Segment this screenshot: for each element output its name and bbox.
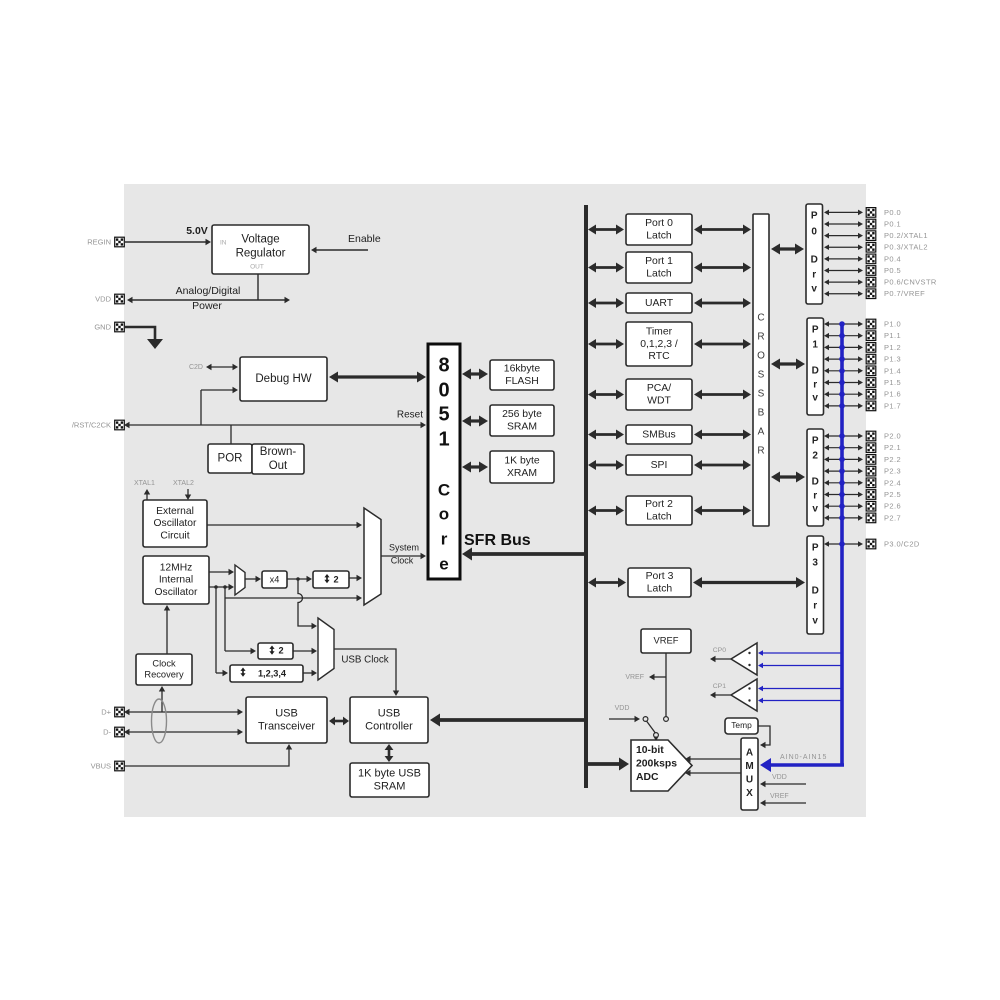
svg-text:12MHz: 12MHz xyxy=(160,563,193,574)
block divide-by-1234 xyxy=(230,665,303,682)
svg-text:POR: POR xyxy=(218,453,243,465)
pin P0.5 xyxy=(824,266,901,276)
svg-text:x4: x4 xyxy=(270,574,280,584)
pin P2.6 xyxy=(824,501,901,511)
wire Timer 0123 RTC to crossbar xyxy=(701,343,744,346)
pin P2.4 xyxy=(824,478,901,488)
comparator CP0 xyxy=(710,643,757,675)
block Port 2 Latch xyxy=(626,496,692,525)
svg-text:16kbyte: 16kbyte xyxy=(504,364,541,375)
bus analog blue vertical xyxy=(840,324,844,765)
block POR xyxy=(208,444,252,473)
pin P1.4 xyxy=(824,366,901,376)
svg-text:Enable: Enable xyxy=(348,233,381,245)
svg-text:VREF: VREF xyxy=(653,634,678,645)
block 1K byte USB SRAM xyxy=(350,763,429,797)
svg-text:2: 2 xyxy=(812,451,818,462)
wire Port 1 Latch to crossbar xyxy=(701,266,744,269)
wire SFR bus to SMBus xyxy=(595,433,617,436)
block USB Transceiver xyxy=(246,697,327,743)
svg-text:5.0V: 5.0V xyxy=(186,225,208,237)
svg-text:VDD: VDD xyxy=(615,705,630,712)
switch vref/vdd select xyxy=(609,705,668,741)
svg-text:P0.1: P0.1 xyxy=(884,220,901,229)
svg-text:2: 2 xyxy=(333,574,338,584)
pin P2.5 xyxy=(824,490,901,500)
wire USB clock to controller xyxy=(334,649,399,696)
svg-text:P2.7: P2.7 xyxy=(884,513,901,522)
svg-text:P2.0: P2.0 xyxy=(884,431,901,440)
svg-text:Recovery: Recovery xyxy=(144,669,184,679)
svg-text:Latch: Latch xyxy=(647,583,673,594)
svg-text:1K byte: 1K byte xyxy=(504,456,539,467)
wire Port 2 Latch to crossbar xyxy=(701,509,744,512)
svg-text:Oscillator: Oscillator xyxy=(155,587,198,598)
wire osc to div1234 xyxy=(216,587,228,676)
svg-text:VREF: VREF xyxy=(770,793,789,800)
pin P1.6 xyxy=(824,389,901,399)
wire reset branch to Debug HW xyxy=(201,387,238,425)
pin P1.3 xyxy=(824,354,901,364)
pin VBUS xyxy=(91,761,125,771)
wire SFR bus to USB controller xyxy=(439,718,586,722)
svg-text:O: O xyxy=(757,351,765,362)
svg-text:Voltage: Voltage xyxy=(241,234,279,246)
block Debug HW xyxy=(240,357,327,401)
pin GND xyxy=(94,322,124,332)
pin /RST/C2CK xyxy=(72,420,124,430)
svg-text:Circuit: Circuit xyxy=(160,530,189,541)
mux internal osc xyxy=(235,565,245,595)
svg-text:P2.3: P2.3 xyxy=(884,467,901,476)
wire internal osc out A xyxy=(209,571,230,573)
svg-text:256 byte: 256 byte xyxy=(502,409,542,420)
svg-text:Reset: Reset xyxy=(397,410,423,421)
svg-text:P1.0: P1.0 xyxy=(884,319,901,328)
wire core to sram xyxy=(470,419,480,422)
svg-text:/RST/C2CK: /RST/C2CK xyxy=(72,420,111,429)
svg-text:Internal: Internal xyxy=(159,575,193,586)
block 8051 Core xyxy=(428,344,460,579)
svg-text:2: 2 xyxy=(278,645,283,655)
pin D+ xyxy=(101,707,124,717)
wire SFR bus to Port 3 Latch xyxy=(595,581,619,584)
svg-text:10-bit: 10-bit xyxy=(636,745,664,756)
wire Enable input xyxy=(311,233,381,253)
svg-text:XRAM: XRAM xyxy=(507,468,537,479)
block CROSSBAR xyxy=(753,214,769,526)
svg-text:D: D xyxy=(811,255,818,266)
svg-text:A: A xyxy=(758,427,765,438)
wire core to flash xyxy=(470,372,480,375)
wire D+ line xyxy=(129,711,239,713)
svg-text:P2.1: P2.1 xyxy=(884,443,901,452)
svg-text:FLASH: FLASH xyxy=(505,376,539,387)
wire osc direct to system mux xyxy=(225,587,362,601)
block SMBus xyxy=(626,425,692,444)
wire AMUX VREF input xyxy=(760,793,806,806)
pin P1.0 xyxy=(824,319,901,329)
svg-text:P2.6: P2.6 xyxy=(884,502,901,511)
block External Oscillator Circuit xyxy=(143,500,207,547)
svg-text:VDD: VDD xyxy=(772,774,787,781)
svg-text:1: 1 xyxy=(812,340,818,351)
wire branch to USB mux with hop xyxy=(298,579,317,629)
block Temp sensor xyxy=(725,718,758,734)
pin P1.1 xyxy=(824,331,901,341)
svg-text:r: r xyxy=(441,529,448,548)
svg-text:D: D xyxy=(812,477,819,488)
svg-text:Timer: Timer xyxy=(646,326,673,337)
wire CP0 inputs blue xyxy=(758,650,842,668)
svg-text:P0.7/VREF: P0.7/VREF xyxy=(884,289,925,298)
svg-text:SPI: SPI xyxy=(651,460,668,471)
svg-text:Temp: Temp xyxy=(731,720,752,730)
wire SFR bus to UART xyxy=(595,302,617,305)
wire SFR bus to Port 2 Latch xyxy=(595,509,617,512)
svg-text:P1.1: P1.1 xyxy=(884,331,901,340)
svg-text:USB: USB xyxy=(378,707,401,719)
svg-text:SRAM: SRAM xyxy=(507,421,537,432)
wire Analog/Digital Power xyxy=(127,285,290,312)
block P3 Drv xyxy=(807,536,824,634)
wire div1234 to usb mux xyxy=(303,672,313,674)
svg-text:D: D xyxy=(812,586,819,597)
wire temp to AMUX xyxy=(758,726,770,748)
wire div2 to system mux xyxy=(349,577,358,579)
svg-text:D: D xyxy=(812,366,819,377)
svg-text:0: 0 xyxy=(438,379,449,401)
wire UART to crossbar xyxy=(701,302,744,305)
svg-text:C: C xyxy=(757,313,764,324)
wire AMUX VDD input xyxy=(760,774,806,787)
svg-text:M: M xyxy=(745,761,753,772)
wire osc to div2 usb xyxy=(225,598,256,654)
block AMUX xyxy=(741,738,758,810)
svg-text:P1.5: P1.5 xyxy=(884,378,901,387)
wire SPI to crossbar xyxy=(701,464,744,467)
svg-text:Latch: Latch xyxy=(646,268,672,279)
svg-text:P2.4: P2.4 xyxy=(884,478,901,487)
wire SFR bus to Timer 0123 RTC xyxy=(595,343,617,346)
svg-text:Power: Power xyxy=(192,300,222,312)
block Clock Recovery xyxy=(136,654,192,685)
svg-text:v: v xyxy=(812,504,818,515)
svg-text:8: 8 xyxy=(438,354,449,376)
svg-text:P1.2: P1.2 xyxy=(884,343,901,352)
wire Reset xyxy=(124,410,426,429)
block divide-by-2 system xyxy=(313,571,349,588)
wire core to xram xyxy=(470,465,480,468)
pin P2.7 xyxy=(824,513,901,523)
svg-text:Port 3: Port 3 xyxy=(646,571,674,582)
svg-text:WDT: WDT xyxy=(647,395,671,406)
svg-text:Analog/Digital: Analog/Digital xyxy=(176,285,241,297)
svg-text:P1.6: P1.6 xyxy=(884,390,901,399)
svg-text:P0.6/CNVSTR: P0.6/CNVSTR xyxy=(884,278,937,287)
wire mux to x4 xyxy=(245,578,257,580)
pin P0.0 xyxy=(824,208,901,218)
svg-text:SFR Bus: SFR Bus xyxy=(464,532,531,549)
pin REGIN xyxy=(87,237,124,247)
svg-text:P0.4: P0.4 xyxy=(884,254,901,263)
block USB Controller xyxy=(350,697,428,743)
svg-text:SMBus: SMBus xyxy=(642,429,676,440)
wire D- line xyxy=(129,731,239,733)
block P0 Drv xyxy=(806,204,823,304)
svg-text:P0.3/XTAL2: P0.3/XTAL2 xyxy=(884,243,928,252)
pin P2.3 xyxy=(824,466,901,476)
svg-text:A: A xyxy=(746,748,753,759)
svg-text:P1.4: P1.4 xyxy=(884,366,901,375)
mux system clock xyxy=(364,508,381,605)
svg-text:r: r xyxy=(813,601,817,612)
wire SFR bus to PCA/WDT xyxy=(595,393,617,396)
svg-text:Out: Out xyxy=(269,460,288,472)
svg-text:r: r xyxy=(813,380,817,391)
block UART xyxy=(626,293,692,313)
svg-text:VREF: VREF xyxy=(625,674,644,681)
wire system clock to core xyxy=(381,542,426,565)
pin P3.0/C2D xyxy=(824,539,920,549)
svg-text:RTC: RTC xyxy=(648,351,670,362)
wire SFR bus to Port 0 Latch xyxy=(595,228,617,231)
svg-text:1,2,3,4: 1,2,3,4 xyxy=(258,668,287,678)
svg-text:P0.5: P0.5 xyxy=(884,266,901,275)
wire ext osc to system mux xyxy=(207,524,358,526)
wire REGIN to regulator xyxy=(124,225,211,245)
svg-text:D+: D+ xyxy=(101,707,111,716)
diagram gray background xyxy=(124,184,866,817)
svg-text:C: C xyxy=(438,480,450,499)
block Port 1 Latch xyxy=(626,252,692,283)
block 12MHz Internal Oscillator xyxy=(143,556,209,604)
svg-text:D-: D- xyxy=(103,727,111,736)
svg-text:5: 5 xyxy=(438,403,449,425)
block Voltage Regulator xyxy=(212,225,309,274)
svg-text:S: S xyxy=(758,389,765,400)
block SPI xyxy=(626,455,692,475)
svg-text:P0.2/XTAL1: P0.2/XTAL1 xyxy=(884,231,928,240)
wire Port 0 Latch to crossbar xyxy=(701,228,744,231)
svg-text:Transceiver: Transceiver xyxy=(258,720,315,732)
svg-text:P: P xyxy=(812,543,819,554)
svg-text:o: o xyxy=(439,504,449,523)
label XTAL1 XTAL2 xyxy=(134,480,194,487)
wire Port 3 Latch to P3 Drv xyxy=(701,581,797,584)
wire div2usb to usb mux xyxy=(293,650,313,652)
svg-text:Controller: Controller xyxy=(365,720,413,732)
pin VDD xyxy=(95,294,124,304)
block Brown-Out xyxy=(252,444,304,474)
svg-text:CP1: CP1 xyxy=(713,683,726,690)
wire VBUS to transceiver xyxy=(124,744,292,766)
svg-text:IN: IN xyxy=(220,240,227,247)
svg-text:r: r xyxy=(813,491,817,502)
pin P0.7/VREF xyxy=(824,289,925,299)
wire XTAL2 arrow xyxy=(187,489,189,496)
svg-text:Port 1: Port 1 xyxy=(645,256,673,267)
pin P2.2 xyxy=(824,455,901,465)
wire vref output pin xyxy=(625,674,666,681)
ground symbol xyxy=(124,327,163,349)
wire AMUX to ADC a xyxy=(690,758,742,760)
pin P0.3/XTAL2 xyxy=(824,242,928,252)
block PCA/WDT xyxy=(626,379,692,410)
svg-text:GND: GND xyxy=(94,322,111,331)
svg-text:v: v xyxy=(812,616,818,627)
pin P1.2 xyxy=(824,343,901,353)
wire internal osc out B xyxy=(209,584,234,590)
svg-text:X: X xyxy=(746,788,753,799)
svg-text:USB: USB xyxy=(275,707,298,719)
svg-text:Oscillator: Oscillator xyxy=(154,518,197,529)
wire x4 to div2 xyxy=(287,576,312,582)
svg-text:Latch: Latch xyxy=(646,511,672,522)
svg-text:Clock: Clock xyxy=(152,658,176,668)
svg-text:S: S xyxy=(758,370,765,381)
mux usb clock xyxy=(318,618,334,680)
svg-text:P2.5: P2.5 xyxy=(884,490,901,499)
svg-text:1K byte USB: 1K byte USB xyxy=(358,767,421,779)
block 1K byte XRAM xyxy=(490,451,554,483)
svg-text:Port 0: Port 0 xyxy=(645,218,673,229)
wire SMBus to crossbar xyxy=(701,433,744,436)
svg-text:P1.7: P1.7 xyxy=(884,401,901,410)
bus AIN0-AIN15 to AMUX xyxy=(760,754,844,772)
svg-text:R: R xyxy=(757,332,764,343)
svg-text:P: P xyxy=(811,211,818,222)
svg-text:External: External xyxy=(156,506,194,517)
svg-text:Brown-: Brown- xyxy=(260,446,297,458)
block P1 Drv xyxy=(807,318,824,415)
svg-text:CP0: CP0 xyxy=(713,647,726,654)
svg-text:C2D: C2D xyxy=(189,364,203,371)
svg-text:P2.2: P2.2 xyxy=(884,455,901,464)
wire AMUX to ADC b xyxy=(690,772,742,774)
block Port 0 Latch xyxy=(626,214,692,245)
svg-text:PCA/: PCA/ xyxy=(647,383,671,394)
svg-text:Latch: Latch xyxy=(646,230,672,241)
svg-text:r: r xyxy=(812,270,816,281)
svg-text:P1.3: P1.3 xyxy=(884,355,901,364)
wire transceiver to controller xyxy=(334,720,344,723)
pin P0.1 xyxy=(824,219,901,229)
svg-text:0: 0 xyxy=(811,227,817,238)
block Port 3 Latch xyxy=(628,568,691,597)
pin P0.6/CNVSTR xyxy=(824,277,937,287)
block Timer 0123 RTC xyxy=(626,322,692,366)
wire SFR bus to SPI xyxy=(595,464,617,467)
wire regulator OUT xyxy=(257,274,259,300)
block 256 byte SRAM xyxy=(490,405,554,436)
svg-text:P3.0/C2D: P3.0/C2D xyxy=(884,539,920,548)
pin P1.5 xyxy=(824,378,901,388)
wire PCA/WDT to crossbar xyxy=(701,393,744,396)
wire clock recovery input xyxy=(161,691,163,713)
svg-text:R: R xyxy=(757,446,764,457)
wire XTAL1 arrow xyxy=(146,494,148,501)
svg-text:Regulator: Regulator xyxy=(236,247,286,259)
svg-text:Debug HW: Debug HW xyxy=(255,373,311,385)
svg-text:ADC: ADC xyxy=(636,772,659,783)
svg-text:1: 1 xyxy=(438,428,449,450)
svg-text:REGIN: REGIN xyxy=(87,237,111,246)
svg-text:UART: UART xyxy=(645,298,674,309)
pin P0.2/XTAL1 xyxy=(824,231,928,241)
bus SFR vertical xyxy=(584,205,588,788)
block VREF xyxy=(641,629,691,653)
comparator CP1 xyxy=(710,679,757,711)
wire C2D to Debug HW xyxy=(189,364,238,371)
wire controller to usb sram xyxy=(388,749,391,757)
block divide-by-2 usb xyxy=(258,643,293,659)
block P2 Drv xyxy=(807,429,824,526)
svg-text:AIN0-AIN15: AIN0-AIN15 xyxy=(780,754,827,761)
pin P2.0 xyxy=(824,431,901,441)
svg-text:Port 2: Port 2 xyxy=(645,499,673,510)
wire SFR bus to ADC xyxy=(588,762,620,766)
svg-text:e: e xyxy=(439,554,448,573)
wire clock recovery to oscillator xyxy=(166,610,168,655)
wire reset branch to POR xyxy=(230,425,232,444)
wire vref down xyxy=(665,653,667,717)
svg-text:Clock: Clock xyxy=(391,555,414,565)
svg-text:P0.0: P0.0 xyxy=(884,208,901,217)
svg-text:System: System xyxy=(389,542,419,552)
block x4 multiplier xyxy=(262,571,287,588)
wire SFR bus to Port 1 Latch xyxy=(595,266,617,269)
wire crossbar to P1 Drv xyxy=(779,362,797,365)
wire Debug HW to core xyxy=(337,375,418,378)
svg-text:VBUS: VBUS xyxy=(91,761,111,770)
svg-text:P: P xyxy=(812,325,819,336)
svg-text:XTAL1: XTAL1 xyxy=(134,480,155,487)
svg-text:B: B xyxy=(758,408,765,419)
svg-text:3: 3 xyxy=(812,558,818,569)
svg-text:v: v xyxy=(812,393,818,404)
svg-text:200ksps: 200ksps xyxy=(636,758,677,769)
svg-text:U: U xyxy=(746,775,753,786)
pin D- xyxy=(103,727,124,737)
wire CP1 inputs blue xyxy=(758,686,842,704)
svg-text:VDD: VDD xyxy=(95,294,111,303)
pin P2.1 xyxy=(824,443,901,453)
block 16kbyte FLASH xyxy=(490,360,554,390)
usb differential pair ellipse xyxy=(152,699,167,743)
wire crossbar to P2 Drv xyxy=(779,475,797,478)
svg-text:USB Clock: USB Clock xyxy=(341,655,388,666)
wire crossbar to P0 Drv xyxy=(779,247,796,250)
pin P0.4 xyxy=(824,254,901,264)
block 10-bit ADC xyxy=(631,740,692,791)
svg-text:0,1,2,3 /: 0,1,2,3 / xyxy=(640,339,678,350)
svg-text:P: P xyxy=(812,436,819,447)
svg-text:OUT: OUT xyxy=(250,264,264,271)
wire SFR bus horizontal to core xyxy=(462,532,588,560)
pin P1.7 xyxy=(824,401,901,411)
svg-text:v: v xyxy=(811,284,817,295)
svg-text:XTAL2: XTAL2 xyxy=(173,480,194,487)
svg-text:SRAM: SRAM xyxy=(374,780,406,792)
